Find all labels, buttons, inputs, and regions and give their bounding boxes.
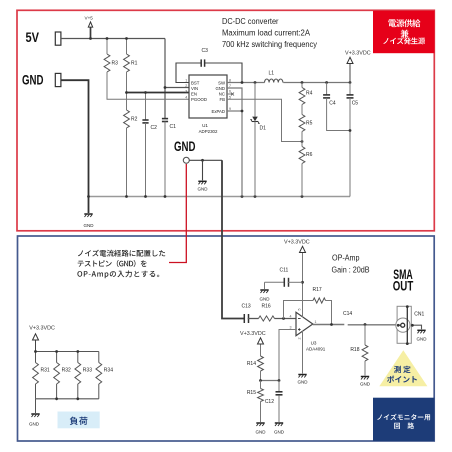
svg-text:R4: R4 [306, 91, 313, 97]
svg-text:GND: GND [417, 337, 428, 342]
svg-text:C12: C12 [265, 399, 274, 405]
svg-text:GND: GND [84, 223, 95, 228]
svg-text:C3: C3 [202, 48, 209, 54]
svg-text:GND: GND [260, 297, 271, 302]
svg-text:GND: GND [174, 139, 196, 154]
svg-text:R17: R17 [313, 287, 322, 293]
svg-text:Maximum load current:2A: Maximum load current:2A [222, 27, 310, 37]
svg-text:R34: R34 [104, 368, 113, 374]
svg-text:DC-DC converter: DC-DC converter [222, 16, 279, 26]
svg-text:2: 2 [298, 338, 302, 340]
svg-text:R31: R31 [41, 368, 50, 374]
svg-text:R3: R3 [112, 61, 119, 67]
svg-text:C11: C11 [280, 268, 289, 274]
svg-text:R5: R5 [306, 121, 313, 127]
svg-text:R2: R2 [131, 117, 138, 123]
svg-text:U1: U1 [202, 123, 208, 128]
svg-text:V+3.3VDC: V+3.3VDC [240, 331, 266, 337]
svg-text:4: 4 [290, 314, 292, 318]
svg-text:5: 5 [229, 95, 231, 99]
svg-text:R18: R18 [350, 347, 359, 353]
svg-text:L1: L1 [269, 71, 275, 77]
svg-text:U3: U3 [311, 340, 317, 345]
svg-text:C13: C13 [242, 304, 251, 310]
svg-text:R16: R16 [262, 304, 271, 310]
svg-text:GND: GND [22, 73, 44, 88]
svg-text:V+3.3VDC: V+3.3VDC [284, 240, 310, 246]
svg-text:D1: D1 [260, 126, 267, 132]
svg-text:SW: SW [218, 80, 226, 85]
svg-text:3: 3 [290, 325, 292, 329]
svg-text:V+5: V+5 [85, 16, 94, 21]
svg-text:R1: R1 [131, 61, 138, 67]
svg-text:BST: BST [191, 80, 200, 85]
svg-text:3: 3 [185, 90, 187, 94]
svg-text:C2: C2 [151, 125, 158, 131]
svg-text:GND: GND [29, 422, 40, 427]
svg-text:OUT: OUT [393, 279, 414, 294]
svg-text:5V: 5V [26, 30, 40, 45]
svg-text:GND: GND [274, 430, 285, 435]
svg-text:C5: C5 [352, 101, 359, 107]
svg-text:PGOOD: PGOOD [191, 97, 207, 102]
svg-text:CN1: CN1 [414, 312, 424, 318]
svg-text:OP-Amp: OP-Amp [332, 253, 360, 263]
svg-text:1: 1 [315, 320, 317, 324]
svg-text:ADA4091: ADA4091 [306, 346, 326, 351]
svg-text:V+3.3VDC: V+3.3VDC [29, 326, 55, 332]
svg-text:GND: GND [256, 430, 267, 435]
svg-text:C1: C1 [170, 124, 177, 130]
svg-text:7: 7 [229, 84, 231, 88]
svg-text:V+3.3VDC: V+3.3VDC [345, 50, 371, 56]
svg-text:C4: C4 [329, 101, 336, 107]
svg-text:EN: EN [191, 91, 197, 96]
svg-text:9: 9 [229, 107, 231, 111]
svg-text:700 kHz switching frequency: 700 kHz switching frequency [222, 39, 318, 49]
svg-text:GND: GND [215, 86, 225, 91]
svg-text:C14: C14 [343, 311, 352, 317]
svg-text:FB: FB [220, 97, 226, 102]
svg-text:R32: R32 [62, 368, 71, 374]
svg-text:5: 5 [298, 309, 302, 311]
svg-text:R14: R14 [247, 361, 256, 367]
svg-text:R6: R6 [306, 152, 313, 158]
svg-text:6: 6 [229, 90, 231, 94]
svg-text:ExPAD: ExPAD [211, 109, 225, 114]
svg-text:GND: GND [360, 382, 371, 387]
svg-text:1: 1 [185, 79, 187, 83]
svg-text:Gain : 20dB: Gain : 20dB [332, 264, 370, 274]
svg-text:NC: NC [219, 91, 225, 96]
svg-text:4: 4 [185, 95, 187, 99]
svg-text:VIN: VIN [191, 86, 198, 91]
svg-text:8: 8 [229, 79, 231, 83]
svg-text:2: 2 [185, 84, 187, 88]
svg-text:R15: R15 [247, 390, 256, 396]
svg-text:GND: GND [198, 187, 209, 192]
svg-text:ADP2302: ADP2302 [199, 129, 218, 134]
svg-text:R33: R33 [83, 368, 92, 374]
svg-text:GND: GND [298, 380, 309, 385]
